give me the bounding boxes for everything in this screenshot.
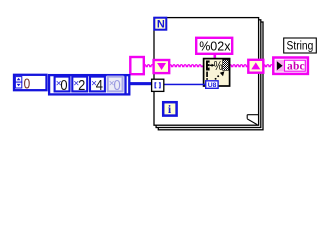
array shell xyxy=(49,75,129,94)
svg-text:N: N xyxy=(157,19,165,31)
left shift register xyxy=(154,60,170,73)
right shift register xyxy=(248,60,263,73)
String indicator terminal xyxy=(273,58,308,74)
array element 4 grayed x0 xyxy=(108,77,123,94)
svg-text:%: % xyxy=(214,58,223,73)
wire node to right shift register xyxy=(229,65,249,67)
svg-text:0: 0 xyxy=(24,76,31,92)
for loop frame sheet 2 xyxy=(156,20,261,128)
array index control xyxy=(14,75,47,93)
for loop main frame xyxy=(154,18,259,126)
i iteration terminal xyxy=(163,102,176,116)
svg-text:2: 2 xyxy=(78,78,85,94)
svg-text:0: 0 xyxy=(60,78,67,94)
U8 conversion bullet xyxy=(206,81,218,89)
array element 1 x0 xyxy=(55,77,70,94)
wire array to tunnel xyxy=(129,82,153,85)
wire string const to left shift register xyxy=(144,65,155,67)
auto-index tunnel xyxy=(152,79,164,91)
wire left shift register to node xyxy=(169,65,205,67)
for loop frame sheet 3 xyxy=(158,22,263,130)
wire %02x to node xyxy=(214,53,217,59)
String label xyxy=(284,38,317,53)
%02x string constant xyxy=(196,38,232,54)
svg-text:abc: abc xyxy=(287,61,305,73)
svg-text:U8: U8 xyxy=(208,82,217,89)
svg-text:String: String xyxy=(287,41,314,53)
array element 3 x4 xyxy=(90,77,105,94)
svg-text:%02x: %02x xyxy=(199,39,231,53)
N count terminal xyxy=(154,18,166,31)
wire right shift register to String indicator xyxy=(263,65,274,67)
format value node U1 xyxy=(204,58,230,86)
svg-text:4: 4 xyxy=(96,78,103,94)
dog-ear fold bottom-right xyxy=(247,115,258,125)
empty string constant xyxy=(130,57,144,74)
svg-text:0: 0 xyxy=(114,78,121,94)
array element 2 x2 xyxy=(72,77,87,94)
wire tunnel to U8 conversion xyxy=(164,84,207,86)
